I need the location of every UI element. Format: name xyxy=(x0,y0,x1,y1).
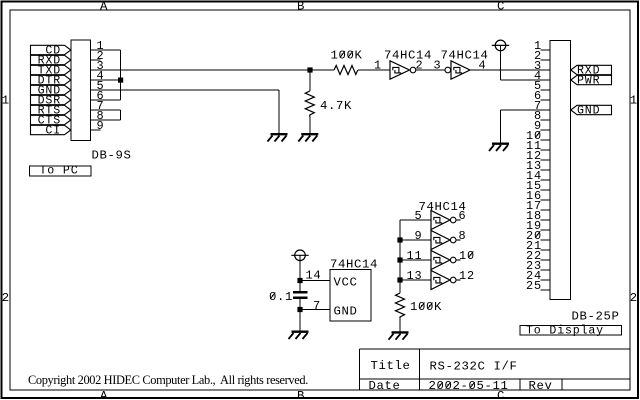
ground (C1) xyxy=(289,332,309,339)
svg-text:2002-05-11: 2002-05-11 xyxy=(429,379,509,393)
node GND flag xyxy=(31,85,71,98)
svg-text:DB-9S: DB-9S xyxy=(92,149,132,163)
J1 pin numbers 1-9 xyxy=(97,39,105,133)
svg-text:11: 11 xyxy=(407,249,423,263)
op-amp U1A 74HC14 inverter xyxy=(390,61,416,79)
svg-text:Copyright 2002 HIDEC Computer: Copyright 2002 HIDEC Computer Lab., All … xyxy=(28,373,308,387)
wire U1A to U1B xyxy=(416,69,445,71)
svg-text:B: B xyxy=(297,389,305,400)
svg-text:74HC14: 74HC14 xyxy=(330,258,378,272)
svg-text:VCC: VCC xyxy=(334,276,358,290)
svg-text:5: 5 xyxy=(415,209,423,223)
svg-text:74HC14: 74HC14 xyxy=(384,49,432,63)
label To PC xyxy=(30,165,92,178)
junction VCC/C1 xyxy=(297,278,302,283)
svg-text:9: 9 xyxy=(415,229,423,243)
svg-text:B: B xyxy=(297,0,305,14)
ground (R3) xyxy=(389,332,409,339)
resistor R3 100K vertical xyxy=(396,293,405,332)
power symbol PWR top xyxy=(492,40,509,80)
svg-text:6: 6 xyxy=(459,209,467,223)
node CI flag xyxy=(31,125,71,138)
svg-text:GND: GND xyxy=(577,105,600,118)
power symbol VCC mid xyxy=(291,250,308,291)
wire GND to U1 pin7 xyxy=(300,309,330,311)
junction bus/U1F xyxy=(397,277,402,282)
node RXD flag xyxy=(31,55,71,68)
J2 pin numbers 1-25 xyxy=(526,39,542,293)
title block frame xyxy=(360,349,631,390)
svg-text:1: 1 xyxy=(630,94,638,108)
svg-text:Rev: Rev xyxy=(529,379,553,393)
svg-text:100K: 100K xyxy=(410,300,442,314)
wire VCC to U1 pin14 xyxy=(300,280,330,282)
node DTR flag xyxy=(31,75,71,88)
J2 pin stubs 1-25 xyxy=(541,50,551,290)
wire DB25 pin7 to ground xyxy=(501,110,551,143)
svg-text:7: 7 xyxy=(313,299,321,313)
wire spare input bus xyxy=(399,220,401,293)
op-amp U1F 74HC14 inverter xyxy=(431,271,461,290)
svg-text:25: 25 xyxy=(526,279,542,293)
op-amp U1B 74HC14 inverter xyxy=(445,61,470,79)
svg-text:10: 10 xyxy=(459,249,475,263)
connector J2 DB-25P body xyxy=(550,41,571,300)
svg-text:GND: GND xyxy=(334,305,358,319)
svg-text:100K: 100K xyxy=(331,49,363,63)
svg-text:1: 1 xyxy=(2,94,10,108)
svg-text:Title: Title xyxy=(371,359,411,373)
resistor R1 100K horizontal xyxy=(334,66,358,75)
svg-text:DB-25P: DB-25P xyxy=(572,310,620,324)
wire GND drop xyxy=(278,90,280,134)
node RTS flag xyxy=(31,105,71,118)
ground (R2) xyxy=(298,134,318,141)
svg-text:RS-232C I/F: RS-232C I/F xyxy=(430,360,518,374)
svg-text:13: 13 xyxy=(407,269,423,283)
IC U1 74HC14 power box xyxy=(330,270,371,322)
op-amp U1D 74HC14 inverter xyxy=(431,231,461,250)
resistor R2 4.7K vertical xyxy=(305,70,314,134)
wire U1E input xyxy=(400,259,431,261)
svg-text:12: 12 xyxy=(459,269,475,283)
wire R1 to U1A xyxy=(358,69,390,71)
svg-text:1: 1 xyxy=(374,59,382,73)
wire bus CD-DTR-DSR xyxy=(120,50,122,100)
svg-text:A: A xyxy=(100,389,108,400)
ground (DB25 pin7) xyxy=(489,144,509,151)
wire PWR to DB25 pin4 xyxy=(501,79,551,81)
wire C1 to GND node xyxy=(299,299,301,331)
svg-text:0.1: 0.1 xyxy=(269,290,293,304)
op-amp U1C 74HC14 inverter xyxy=(431,211,461,230)
wire U1B to DB25 pin3 xyxy=(470,69,550,71)
node TXD flag xyxy=(31,65,71,78)
svg-text:9: 9 xyxy=(97,119,105,133)
node CD flag xyxy=(31,45,71,58)
ground (DB9 GND) xyxy=(268,134,288,141)
svg-text:14: 14 xyxy=(306,269,322,283)
node CTS flag xyxy=(31,115,71,128)
op-amp U1E 74HC14 inverter xyxy=(431,251,461,270)
svg-text:4.7K: 4.7K xyxy=(320,99,352,113)
svg-text:CI: CI xyxy=(45,125,61,138)
label To Display xyxy=(520,324,622,337)
svg-text:To Display: To Display xyxy=(526,324,604,337)
svg-text:Date: Date xyxy=(369,379,401,393)
node PWR flag J2 xyxy=(571,75,612,88)
wire RTS-CTS loopback xyxy=(120,110,122,120)
svg-text:To PC: To PC xyxy=(40,165,79,178)
node DSR flag xyxy=(31,95,71,108)
junction TXD/R2 xyxy=(307,67,312,72)
wire U1F input xyxy=(400,279,431,281)
connector J1 DB-9S body xyxy=(71,40,91,141)
junction bus/U1D xyxy=(397,237,402,242)
node GND flag J2 xyxy=(571,105,612,118)
junction GND/C1 xyxy=(297,307,302,312)
wire U1C input xyxy=(400,219,431,221)
J1 pin stubs 1-9 xyxy=(91,50,280,130)
svg-text:8: 8 xyxy=(459,229,467,243)
svg-text:2: 2 xyxy=(2,291,10,305)
wire TXD to R1 xyxy=(91,69,335,71)
junction on DTR pin4 xyxy=(118,78,123,83)
node RXD flag J2 xyxy=(571,65,612,78)
svg-text:PWR: PWR xyxy=(577,75,600,88)
capacitor C1 0.1 xyxy=(293,292,308,297)
svg-text:C: C xyxy=(497,0,505,14)
svg-text:A: A xyxy=(100,0,108,14)
svg-text:2: 2 xyxy=(630,291,638,305)
junction bus/U1E xyxy=(397,257,402,262)
wire U1D input xyxy=(400,239,431,241)
